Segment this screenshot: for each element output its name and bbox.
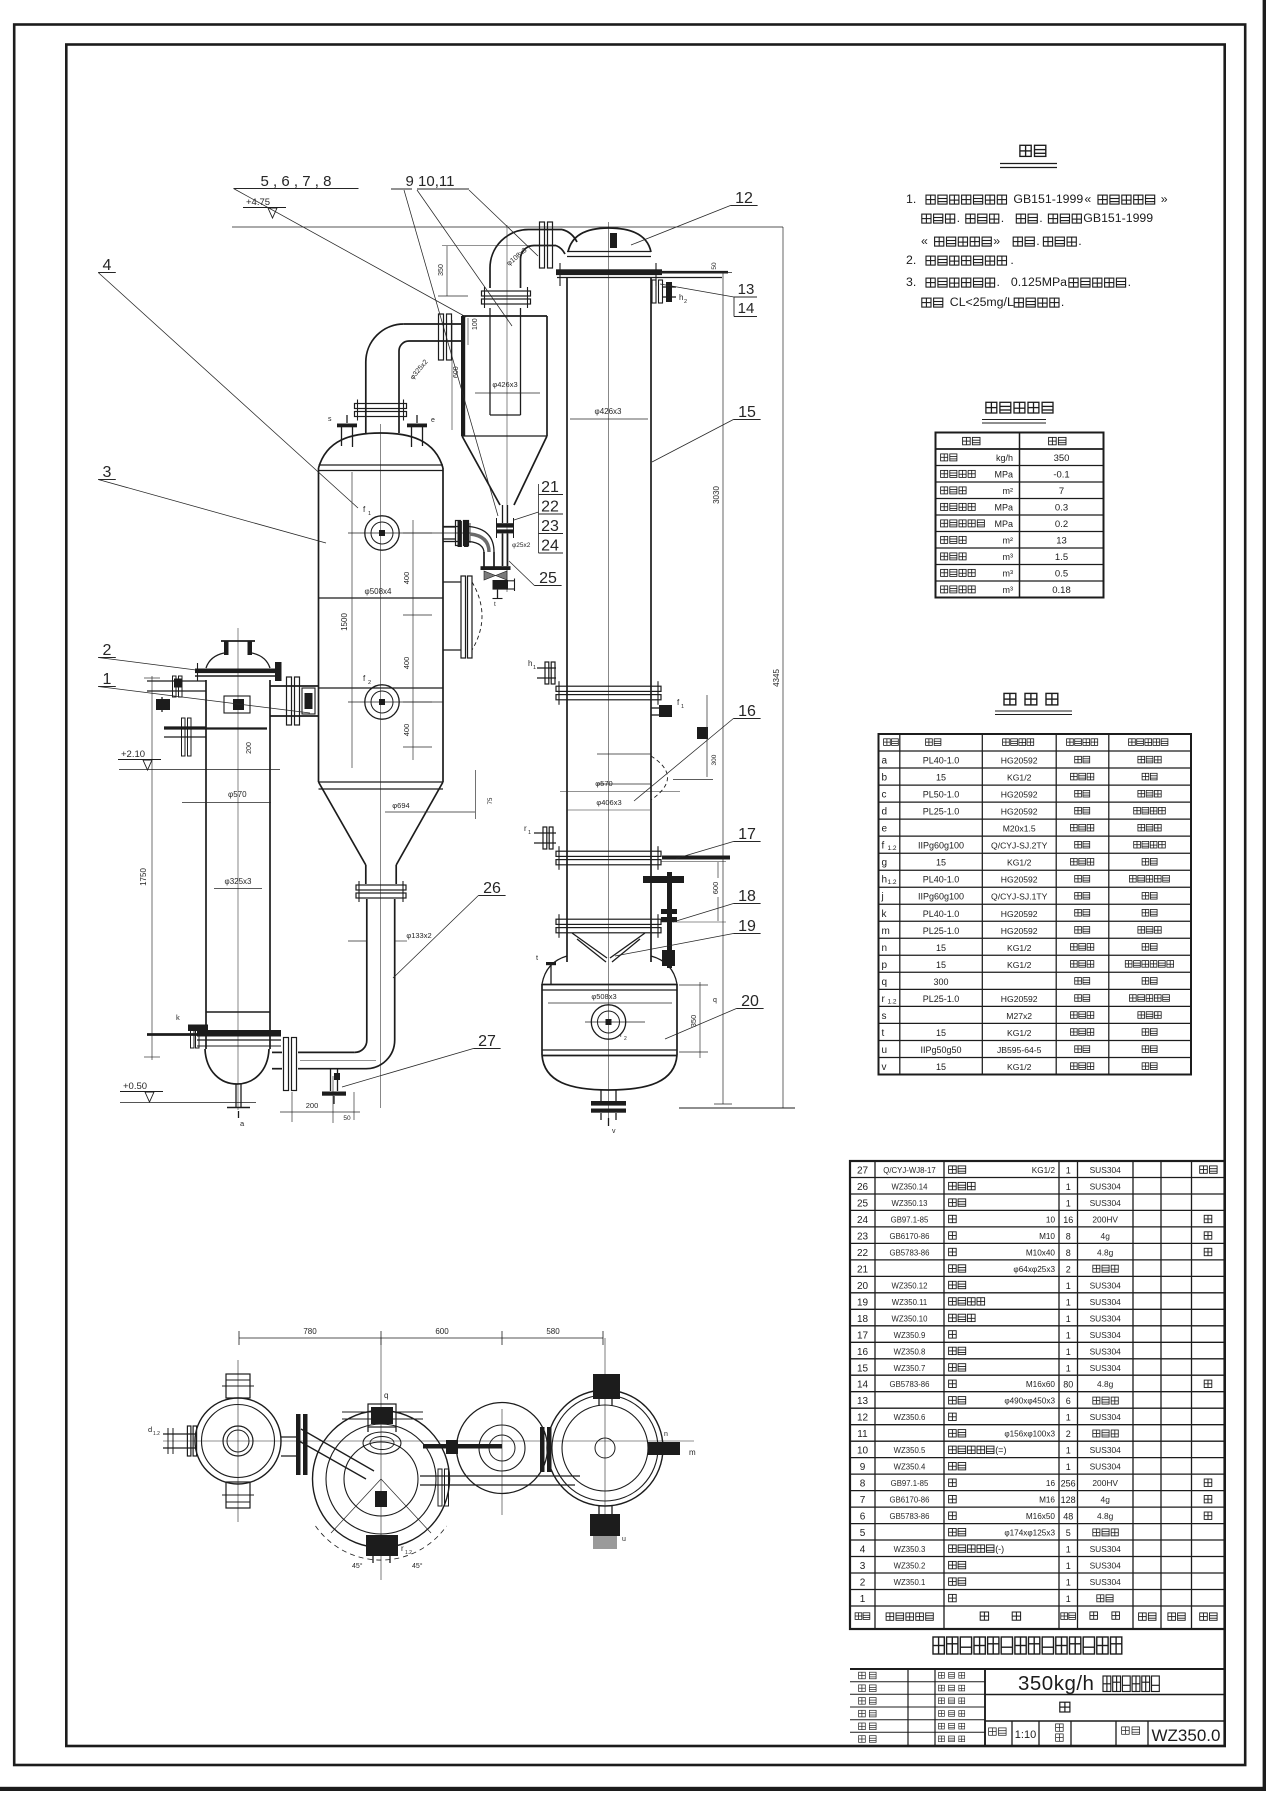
svg-text:22: 22	[857, 1248, 869, 1259]
svg-text:4: 4	[860, 1545, 866, 1556]
svg-text:5 , 6 , 7 , 8: 5 , 6 , 7 , 8	[261, 173, 332, 190]
svg-text:400: 400	[402, 572, 411, 585]
svg-text:-0.1: -0.1	[1053, 470, 1069, 481]
svg-text:WZ350.10: WZ350.10	[892, 1314, 929, 1323]
svg-text:1: 1	[1066, 1446, 1071, 1456]
svg-text:WZ350.4: WZ350.4	[894, 1463, 926, 1472]
svg-text:0.125MPa: 0.125MPa	[1011, 275, 1067, 289]
svg-text:M20x1.5: M20x1.5	[1003, 824, 1036, 834]
svg-text:8: 8	[1066, 1231, 1071, 1241]
svg-text:1: 1	[1066, 1578, 1071, 1588]
svg-text:SUS304: SUS304	[1090, 1346, 1122, 1356]
svg-text:22: 22	[541, 499, 559, 516]
svg-text:17: 17	[738, 826, 756, 843]
svg-text:4.8g: 4.8g	[1097, 1379, 1114, 1389]
svg-text:»: »	[1161, 192, 1168, 206]
svg-text:17: 17	[857, 1330, 869, 1341]
svg-text:13: 13	[857, 1396, 869, 1407]
svg-text:Q/CYJ-SJ.2TY: Q/CYJ-SJ.2TY	[991, 841, 1048, 851]
svg-text:.: .	[957, 211, 960, 225]
svg-text:WZ350.12: WZ350.12	[892, 1281, 928, 1290]
svg-text:GB151-1999: GB151-1999	[1083, 211, 1153, 225]
svg-text:350kg/h: 350kg/h	[1018, 1672, 1094, 1695]
svg-text:CL<25mg/L: CL<25mg/L	[950, 295, 1014, 309]
svg-text:1.5: 1.5	[1055, 552, 1068, 563]
svg-text:2.: 2.	[906, 253, 916, 267]
svg-text:s: s	[328, 416, 332, 423]
svg-text:SUS304: SUS304	[1090, 1544, 1122, 1554]
svg-text:27: 27	[478, 1033, 496, 1050]
svg-text:8: 8	[860, 1479, 866, 1490]
svg-text:24: 24	[541, 538, 559, 555]
svg-text:300: 300	[711, 754, 718, 765]
svg-text:φ426x3: φ426x3	[595, 407, 623, 416]
svg-text:GB151-1999: GB151-1999	[1013, 192, 1083, 206]
svg-text:1: 1	[1066, 1330, 1071, 1340]
svg-text:KG1/2: KG1/2	[1007, 943, 1032, 953]
svg-text:s: s	[882, 1011, 887, 1022]
svg-text:M16x50: M16x50	[1026, 1512, 1056, 1521]
svg-text:16: 16	[857, 1347, 869, 1358]
svg-text:j: j	[881, 892, 884, 903]
svg-text:q: q	[882, 977, 888, 988]
svg-text:4345: 4345	[772, 669, 781, 687]
svg-text:26: 26	[483, 880, 501, 897]
svg-text:45°: 45°	[412, 1562, 423, 1570]
svg-text:23: 23	[857, 1231, 869, 1242]
svg-text:600: 600	[435, 1327, 449, 1336]
svg-text:25: 25	[857, 1199, 869, 1210]
svg-text:φ426x3: φ426x3	[492, 380, 517, 389]
svg-text:MPa: MPa	[994, 519, 1013, 529]
svg-text:1500: 1500	[340, 613, 349, 631]
svg-text:φ508x3: φ508x3	[591, 992, 616, 1001]
svg-text:M10: M10	[1039, 1232, 1055, 1241]
svg-text:1: 1	[1066, 1297, 1071, 1307]
svg-text:HG20592: HG20592	[1001, 807, 1038, 817]
svg-text:4g: 4g	[1101, 1495, 1111, 1505]
svg-text:k: k	[176, 1013, 180, 1022]
svg-text:h: h	[679, 293, 683, 302]
svg-text:PL40-1.0: PL40-1.0	[923, 875, 960, 885]
svg-text:300: 300	[933, 977, 948, 987]
svg-text:e: e	[882, 824, 888, 835]
svg-text:8: 8	[1066, 1248, 1071, 1258]
svg-text:n: n	[882, 943, 888, 954]
svg-text:9: 9	[860, 1462, 866, 1473]
svg-text:KG1/2: KG1/2	[1007, 773, 1032, 783]
svg-text:1: 1	[681, 704, 684, 710]
svg-text:15: 15	[936, 1062, 946, 1072]
svg-text:.: .	[1078, 234, 1081, 248]
svg-text:7: 7	[860, 1495, 866, 1506]
svg-text:m³: m³	[1003, 585, 1014, 595]
svg-text:12: 12	[735, 190, 753, 207]
svg-text:Q/CYJ-SJ.1TY: Q/CYJ-SJ.1TY	[991, 892, 1048, 902]
svg-text:SUS304: SUS304	[1090, 1330, 1122, 1340]
svg-text:t: t	[494, 601, 496, 608]
svg-text:0.3: 0.3	[1055, 503, 1068, 514]
svg-text:19: 19	[857, 1297, 869, 1308]
svg-text:50: 50	[343, 1115, 351, 1122]
svg-text:KG1/2: KG1/2	[1007, 1028, 1032, 1038]
svg-text:WZ350.13: WZ350.13	[892, 1199, 928, 1208]
svg-text:1: 1	[1066, 1314, 1071, 1324]
svg-text:80: 80	[1063, 1380, 1073, 1390]
svg-text:HG20592: HG20592	[1001, 994, 1038, 1004]
svg-text:HG20592: HG20592	[1001, 926, 1038, 936]
svg-text:1: 1	[103, 671, 112, 688]
svg-text:2: 2	[624, 1036, 627, 1042]
svg-text:20: 20	[741, 993, 759, 1010]
svg-text:WZ350.8: WZ350.8	[894, 1347, 926, 1356]
svg-text:KG1/2: KG1/2	[1007, 1062, 1032, 1072]
svg-text:5: 5	[1066, 1528, 1071, 1538]
svg-text:φ174xφ125x3: φ174xφ125x3	[1004, 1529, 1055, 1538]
svg-text:21: 21	[541, 479, 559, 496]
svg-text:4.8g: 4.8g	[1097, 1247, 1114, 1257]
svg-text:12: 12	[857, 1413, 869, 1424]
svg-text:«: «	[921, 234, 928, 248]
svg-text:2: 2	[103, 642, 112, 659]
svg-text:13: 13	[738, 281, 755, 298]
svg-text:200: 200	[306, 1101, 319, 1110]
svg-text:SUS304: SUS304	[1090, 1198, 1122, 1208]
svg-text:d: d	[148, 1425, 152, 1434]
svg-text:g: g	[882, 858, 888, 869]
svg-text:WZ350.14: WZ350.14	[892, 1183, 929, 1192]
svg-text:100: 100	[472, 318, 479, 330]
svg-text:.: .	[1128, 275, 1131, 289]
svg-text:.: .	[1061, 295, 1064, 309]
svg-text:WZ350.0: WZ350.0	[1152, 1726, 1221, 1745]
svg-text:7: 7	[1059, 486, 1064, 497]
svg-text:15: 15	[936, 943, 946, 953]
svg-text:1: 1	[1066, 1166, 1071, 1176]
svg-text:WZ350.1: WZ350.1	[894, 1578, 926, 1587]
svg-text:0.2: 0.2	[1055, 519, 1068, 530]
svg-text:1: 1	[1066, 1347, 1071, 1357]
svg-text:75: 75	[488, 797, 494, 804]
svg-text:256: 256	[1061, 1479, 1076, 1489]
svg-text:350: 350	[438, 264, 445, 276]
svg-text:9 10,11: 9 10,11	[406, 173, 455, 190]
svg-text:f: f	[882, 841, 885, 852]
svg-text:MPa: MPa	[994, 503, 1013, 513]
svg-text:3030: 3030	[712, 486, 721, 504]
svg-text:+0.50: +0.50	[123, 1081, 147, 1092]
svg-text:GB5783-86: GB5783-86	[890, 1380, 930, 1389]
svg-text:16: 16	[1046, 1479, 1056, 1488]
svg-text:SUS304: SUS304	[1090, 1165, 1122, 1175]
svg-text:.: .	[997, 275, 1000, 289]
svg-text:SUS304: SUS304	[1090, 1445, 1122, 1455]
svg-text:M27x2: M27x2	[1006, 1011, 1032, 1021]
svg-text:»: »	[993, 234, 1000, 248]
svg-text:IIPg50g50: IIPg50g50	[920, 1045, 961, 1055]
svg-text:q: q	[384, 1391, 388, 1400]
svg-text:WZ350.3: WZ350.3	[894, 1545, 926, 1554]
svg-text:m³: m³	[1003, 552, 1014, 562]
svg-text:IIPg60g100: IIPg60g100	[918, 892, 964, 902]
svg-text:φ570: φ570	[228, 790, 247, 799]
svg-text:PL25-1.0: PL25-1.0	[923, 994, 960, 1004]
svg-text:M16x60: M16x60	[1026, 1380, 1056, 1389]
svg-text:u: u	[622, 1536, 626, 1543]
svg-text:14: 14	[857, 1380, 869, 1391]
svg-text:.: .	[1036, 234, 1039, 248]
svg-text:1.: 1.	[906, 192, 916, 206]
svg-text:15: 15	[738, 404, 756, 421]
svg-text:1: 1	[1066, 1199, 1071, 1209]
svg-text:PL50-1.0: PL50-1.0	[923, 790, 960, 800]
svg-text:14: 14	[738, 300, 755, 317]
svg-text:10: 10	[857, 1446, 869, 1457]
svg-text:1: 1	[1066, 1594, 1071, 1604]
svg-text:1: 1	[533, 665, 536, 671]
svg-text:MPa: MPa	[994, 470, 1013, 480]
svg-text:26: 26	[857, 1182, 869, 1193]
svg-text:e: e	[431, 417, 435, 424]
svg-text:2: 2	[1066, 1429, 1071, 1439]
svg-text:2: 2	[368, 680, 371, 686]
svg-text:15: 15	[936, 1028, 946, 1038]
svg-text:KG1/2: KG1/2	[1007, 960, 1032, 970]
svg-text:v: v	[882, 1062, 887, 1073]
svg-text:n: n	[664, 1431, 668, 1438]
svg-text:m³: m³	[1003, 569, 1014, 579]
svg-text:r: r	[524, 824, 527, 833]
svg-text:1: 1	[860, 1594, 866, 1605]
svg-text:SUS304: SUS304	[1090, 1412, 1122, 1422]
svg-text:45°: 45°	[352, 1562, 363, 1570]
svg-text:6: 6	[860, 1512, 866, 1523]
svg-text:5: 5	[860, 1528, 866, 1539]
svg-text:1: 1	[1066, 1182, 1071, 1192]
svg-text:15: 15	[936, 773, 946, 783]
svg-text:M10x40: M10x40	[1026, 1248, 1056, 1257]
svg-text:PL40-1.0: PL40-1.0	[923, 909, 960, 919]
svg-text:m: m	[689, 1448, 696, 1457]
svg-text:.: .	[1001, 211, 1004, 225]
svg-text:400: 400	[402, 657, 411, 670]
svg-text:WZ350.6: WZ350.6	[894, 1413, 926, 1422]
svg-text:580: 580	[546, 1327, 560, 1336]
svg-text:d: d	[882, 807, 888, 818]
svg-text:21: 21	[857, 1264, 869, 1275]
svg-text:WZ350.11: WZ350.11	[892, 1298, 927, 1307]
svg-text:1: 1	[1066, 1545, 1071, 1555]
svg-text:1: 1	[1066, 1363, 1071, 1373]
svg-text:1:10: 1:10	[1015, 1729, 1036, 1741]
svg-text:WZ350.7: WZ350.7	[894, 1364, 926, 1373]
svg-text:25: 25	[539, 570, 557, 587]
svg-text:GB5783-86: GB5783-86	[890, 1512, 930, 1521]
svg-text:1: 1	[368, 511, 371, 517]
svg-text:SUS304: SUS304	[1090, 1561, 1122, 1571]
svg-text:SUS304: SUS304	[1090, 1182, 1122, 1192]
svg-text:p: p	[882, 960, 888, 971]
svg-text:23: 23	[541, 518, 559, 535]
svg-text:SUS304: SUS304	[1090, 1280, 1122, 1290]
svg-text:r: r	[401, 1544, 404, 1553]
svg-text:1: 1	[1066, 1561, 1071, 1571]
svg-text:13: 13	[1056, 536, 1067, 547]
svg-text:φ508x4: φ508x4	[365, 587, 393, 596]
svg-text:h: h	[528, 659, 532, 668]
svg-text:1: 1	[1066, 1462, 1071, 1472]
svg-text:4.8g: 4.8g	[1097, 1511, 1114, 1521]
svg-text:1: 1	[528, 830, 531, 836]
svg-text:HG20592: HG20592	[1001, 909, 1038, 919]
svg-text:m²: m²	[1003, 536, 1014, 546]
svg-text:200: 200	[246, 742, 253, 754]
svg-text:+2.10: +2.10	[121, 749, 145, 760]
svg-text:27: 27	[857, 1166, 869, 1177]
svg-text:«: «	[1084, 192, 1091, 206]
svg-text:780: 780	[303, 1327, 317, 1336]
svg-text:1: 1	[1066, 1413, 1071, 1423]
svg-text:u: u	[882, 1045, 888, 1056]
svg-text:φ133x2: φ133x2	[406, 931, 431, 940]
svg-text:M16: M16	[1039, 1496, 1055, 1505]
svg-text:PL25-1.0: PL25-1.0	[923, 926, 960, 936]
svg-text:2: 2	[860, 1578, 866, 1589]
svg-text:18: 18	[857, 1314, 869, 1325]
svg-text:φ694: φ694	[392, 801, 409, 810]
svg-text:φ156xφ100x3: φ156xφ100x3	[1004, 1430, 1055, 1439]
svg-text:50: 50	[711, 262, 718, 270]
svg-text:0.5: 0.5	[1055, 569, 1068, 580]
svg-text:PL25-1.0: PL25-1.0	[923, 807, 960, 817]
svg-text:.: .	[1039, 211, 1042, 225]
svg-text:20: 20	[857, 1281, 869, 1292]
svg-text:SUS304: SUS304	[1090, 1363, 1122, 1373]
svg-text:16: 16	[1063, 1215, 1073, 1225]
svg-text:0.18: 0.18	[1052, 585, 1071, 596]
svg-text:HG20592: HG20592	[1001, 790, 1038, 800]
svg-text:1.2: 1.2	[888, 998, 897, 1005]
svg-text:GB97.1-85: GB97.1-85	[891, 1479, 929, 1488]
svg-text:SUS304: SUS304	[1090, 1462, 1122, 1472]
svg-text:m: m	[882, 926, 890, 937]
svg-text:24: 24	[857, 1215, 869, 1226]
svg-text:1.2: 1.2	[888, 879, 897, 886]
svg-text:JB595-64-5: JB595-64-5	[997, 1045, 1042, 1055]
svg-text:φ325x3: φ325x3	[225, 877, 253, 886]
svg-text:18: 18	[738, 888, 756, 905]
svg-text:1: 1	[1066, 1281, 1071, 1291]
svg-text:HG20592: HG20592	[1001, 756, 1038, 766]
svg-text:15: 15	[936, 960, 946, 970]
svg-text:.: .	[1010, 253, 1013, 267]
svg-text:3.: 3.	[906, 275, 916, 289]
svg-text:φ64xφ25x3: φ64xφ25x3	[1013, 1265, 1055, 1274]
svg-text:200HV: 200HV	[1092, 1214, 1118, 1224]
svg-text:m²: m²	[1003, 486, 1014, 496]
svg-text:1750: 1750	[139, 868, 148, 886]
svg-text:WZ350.5: WZ350.5	[894, 1446, 926, 1455]
svg-text:1.2: 1.2	[405, 1550, 412, 1556]
svg-text:350: 350	[1054, 453, 1070, 464]
svg-text:GB6170-86: GB6170-86	[890, 1232, 930, 1241]
svg-text:φ25x2: φ25x2	[512, 542, 531, 549]
svg-text:1.2: 1.2	[153, 1431, 160, 1437]
svg-text:t: t	[882, 1028, 885, 1039]
svg-text:a: a	[882, 756, 888, 767]
svg-text:b: b	[882, 773, 888, 784]
svg-text:19: 19	[738, 918, 756, 935]
svg-text:600: 600	[711, 882, 720, 895]
svg-text:4g: 4g	[1101, 1231, 1111, 1241]
svg-text:φ406x3: φ406x3	[596, 798, 621, 807]
svg-text:15: 15	[936, 858, 946, 868]
svg-text:16: 16	[738, 703, 756, 720]
svg-text:15: 15	[857, 1363, 869, 1374]
svg-text:KG1/2: KG1/2	[1007, 858, 1032, 868]
svg-text:v: v	[612, 1128, 616, 1135]
svg-text:SUS304: SUS304	[1090, 1577, 1122, 1587]
svg-text:GB97.1-85: GB97.1-85	[891, 1215, 929, 1224]
svg-text:(=): (=)	[995, 1445, 1006, 1455]
svg-text:200HV: 200HV	[1092, 1478, 1118, 1488]
svg-text:SUS304: SUS304	[1090, 1297, 1122, 1307]
svg-text:(-): (-)	[995, 1544, 1004, 1554]
svg-text:6: 6	[1066, 1396, 1071, 1406]
svg-text:1.2: 1.2	[888, 845, 897, 852]
svg-text:c: c	[882, 790, 887, 801]
svg-text:400: 400	[402, 724, 411, 737]
svg-text:48: 48	[1063, 1512, 1073, 1522]
svg-text:Q/CYJ-WJ8-17: Q/CYJ-WJ8-17	[883, 1166, 935, 1175]
svg-text:3: 3	[103, 464, 112, 481]
svg-text:10: 10	[1046, 1215, 1056, 1224]
svg-text:SUS304: SUS304	[1090, 1313, 1122, 1323]
svg-text:IIPg60g100: IIPg60g100	[918, 841, 964, 851]
svg-text:2: 2	[1066, 1264, 1071, 1274]
svg-text:q: q	[713, 997, 717, 1004]
svg-text:GB5783-86: GB5783-86	[890, 1248, 930, 1257]
svg-text:kg/h: kg/h	[996, 453, 1013, 463]
svg-text:GB6170-86: GB6170-86	[890, 1496, 930, 1505]
svg-text:h: h	[882, 875, 888, 886]
svg-text:φ570: φ570	[595, 779, 612, 788]
svg-text:128: 128	[1061, 1495, 1076, 1505]
svg-text:PL40-1.0: PL40-1.0	[923, 756, 960, 766]
svg-text:φ490xφ450x3: φ490xφ450x3	[1004, 1397, 1055, 1406]
svg-text:WZ350.2: WZ350.2	[894, 1562, 926, 1571]
svg-text:3: 3	[860, 1561, 866, 1572]
svg-text:11: 11	[857, 1429, 868, 1440]
svg-text:4: 4	[103, 257, 112, 274]
svg-text:2: 2	[684, 299, 687, 305]
svg-text:KG1/2: KG1/2	[1032, 1166, 1056, 1175]
svg-text:HG20592: HG20592	[1001, 875, 1038, 885]
svg-text:WZ350.9: WZ350.9	[894, 1331, 926, 1340]
